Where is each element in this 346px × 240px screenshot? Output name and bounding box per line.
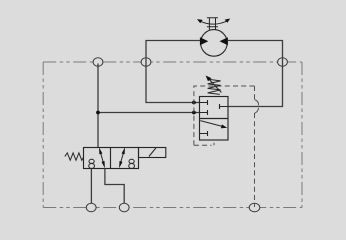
port circle P3 top-right <box>278 58 288 66</box>
enclosure boundary (dash-dot box) <box>43 62 302 208</box>
motor M1 shaft <box>207 18 218 30</box>
boundary jog where wire crosses dashed edge <box>255 100 259 114</box>
valve V1 top box left port T-stub lower <box>200 110 208 115</box>
valve V1 bottom box flow arrow <box>200 121 222 127</box>
wire motor right to boundary and down <box>228 41 283 107</box>
wire valve V2 bottom port to P5 <box>105 169 124 204</box>
valve V1 top box left port T-stub upper <box>200 100 208 105</box>
port circle P5 bottom-mid <box>119 203 129 211</box>
junction node on dashed box edge upper <box>192 101 196 105</box>
valve V2 left box plugged port (8) <box>89 159 95 168</box>
junction node on dashed box edge lower <box>192 111 196 115</box>
valve V1 top box right port T-stub <box>220 104 229 109</box>
hydraulic motor M1 <box>201 30 228 57</box>
junction node at branch <box>96 111 100 115</box>
valve V1 bottom box left T-stub <box>200 131 208 136</box>
wire from port P1 down to valve V2 <box>97 64 99 148</box>
wire valve V2 left bottom port to P4 <box>90 169 92 204</box>
motor M1 right inlet triangle <box>220 37 228 45</box>
port circle P6 bottom-right <box>249 203 260 211</box>
port circle P2 top-mid <box>141 58 151 66</box>
port circle P4 bottom-left <box>86 203 96 211</box>
valve V2 right box arrow (double headed) <box>120 151 124 165</box>
valve V2 right box plugged port (8) <box>129 159 135 168</box>
relief valve V1 body <box>200 97 229 141</box>
port circle P1 top-left <box>93 58 103 66</box>
valve V2 return spring <box>65 153 84 160</box>
valve V2 solenoid <box>139 148 166 158</box>
subsystem dashed box around valve V1 <box>194 86 255 207</box>
valve V1 spring <box>208 79 221 94</box>
wire motor left to boundary and down to valve V1 port A <box>146 41 200 103</box>
directional valve V2 body <box>84 148 139 169</box>
valve V2 left box arrow (double headed) <box>100 151 104 165</box>
wire branch to valve V1 port B <box>98 112 200 114</box>
valve V1 adjustment arrow <box>208 78 222 93</box>
motor M1 bidirectional rotation arrow <box>200 20 229 24</box>
motor M1 left inlet triangle <box>200 37 208 45</box>
